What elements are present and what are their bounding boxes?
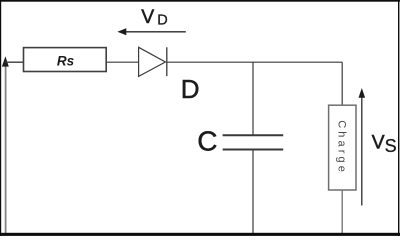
svg-text:V: V [141,6,154,28]
charge box (load) [329,105,356,190]
wire: resistor to diode [106,61,138,63]
frame right [398,0,399,236]
diode D [139,47,167,76]
frame left [0,0,1,236]
wire: diode to top-right corner [167,61,342,63]
svg-text:Charge: Charge [335,120,347,175]
wire: right vertical down to charge box [341,62,343,105]
arrow V_S (points up) [359,88,366,206]
resistor Rs [24,48,107,72]
svg-text:C: C [197,126,217,157]
arrow V_D (points left) [117,28,185,35]
svg-text:D: D [181,74,200,104]
wire: top node to capacitor [252,62,254,134]
wire: left node to resistor [5,61,24,63]
svg-text:Rs: Rs [57,53,75,68]
wire: capacitor to bottom return [252,151,254,235]
wire: left vertical return [5,60,7,234]
label V_S [372,131,397,156]
wire: charge box to bottom return [341,190,343,234]
current arrowhead (up) on left wire [2,56,9,66]
capacitor C [223,135,284,149]
label V_D [141,6,168,29]
frame top [0,0,400,2]
wire: bottom return (merged with frame bottom) [0,233,400,236]
svg-text:S: S [385,136,397,156]
svg-text:V: V [372,131,385,153]
svg-text:D: D [157,13,167,29]
